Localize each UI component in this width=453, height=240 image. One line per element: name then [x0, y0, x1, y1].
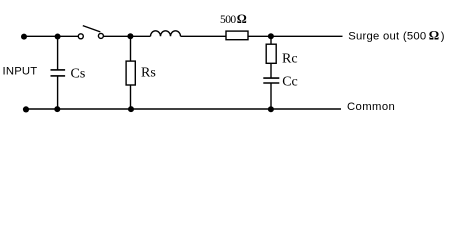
- svg-text:Cs: Cs: [71, 66, 86, 81]
- bottom wire (common rail): [26, 108, 341, 110]
- svg-text:Ω: Ω: [237, 12, 247, 26]
- resistor Rs: [130, 36, 132, 61]
- capacitor Cc: [270, 63, 272, 78]
- svg-text:Rc: Rc: [282, 52, 298, 67]
- resistor 500 ohm: [226, 31, 248, 40]
- input terminal top: [21, 34, 27, 40]
- node Cs top: [55, 34, 61, 40]
- node Cc bottom: [268, 106, 274, 112]
- wire inductor to 500-ohm resistor: [181, 35, 227, 37]
- resistor Rc: [270, 36, 272, 44]
- svg-text:Rs: Rs: [141, 66, 156, 81]
- node Rc top: [268, 33, 274, 39]
- wire top-left (terminal to switch): [24, 35, 78, 37]
- node Rs bottom: [128, 106, 134, 112]
- svg-text:INPUT: INPUT: [3, 66, 38, 78]
- capacitor Cs: [57, 36, 59, 70]
- inductor L: [151, 31, 181, 37]
- node Rs top: [127, 33, 133, 39]
- svg-text:Common: Common: [347, 101, 395, 113]
- svg-text:500: 500: [220, 14, 236, 26]
- svg-text:Cc: Cc: [282, 74, 298, 89]
- input terminal bottom: [23, 106, 29, 112]
- svg-text:): ): [441, 31, 445, 43]
- wire resistor to Rc node: [248, 35, 271, 37]
- node Cs bottom: [54, 106, 60, 112]
- wire to surge out: [271, 35, 343, 37]
- svg-text:Ω: Ω: [429, 28, 439, 43]
- switch S1: [78, 34, 83, 39]
- svg-text:Surge out (500: Surge out (500: [348, 31, 426, 43]
- wire switch to Rs node: [103, 35, 150, 37]
